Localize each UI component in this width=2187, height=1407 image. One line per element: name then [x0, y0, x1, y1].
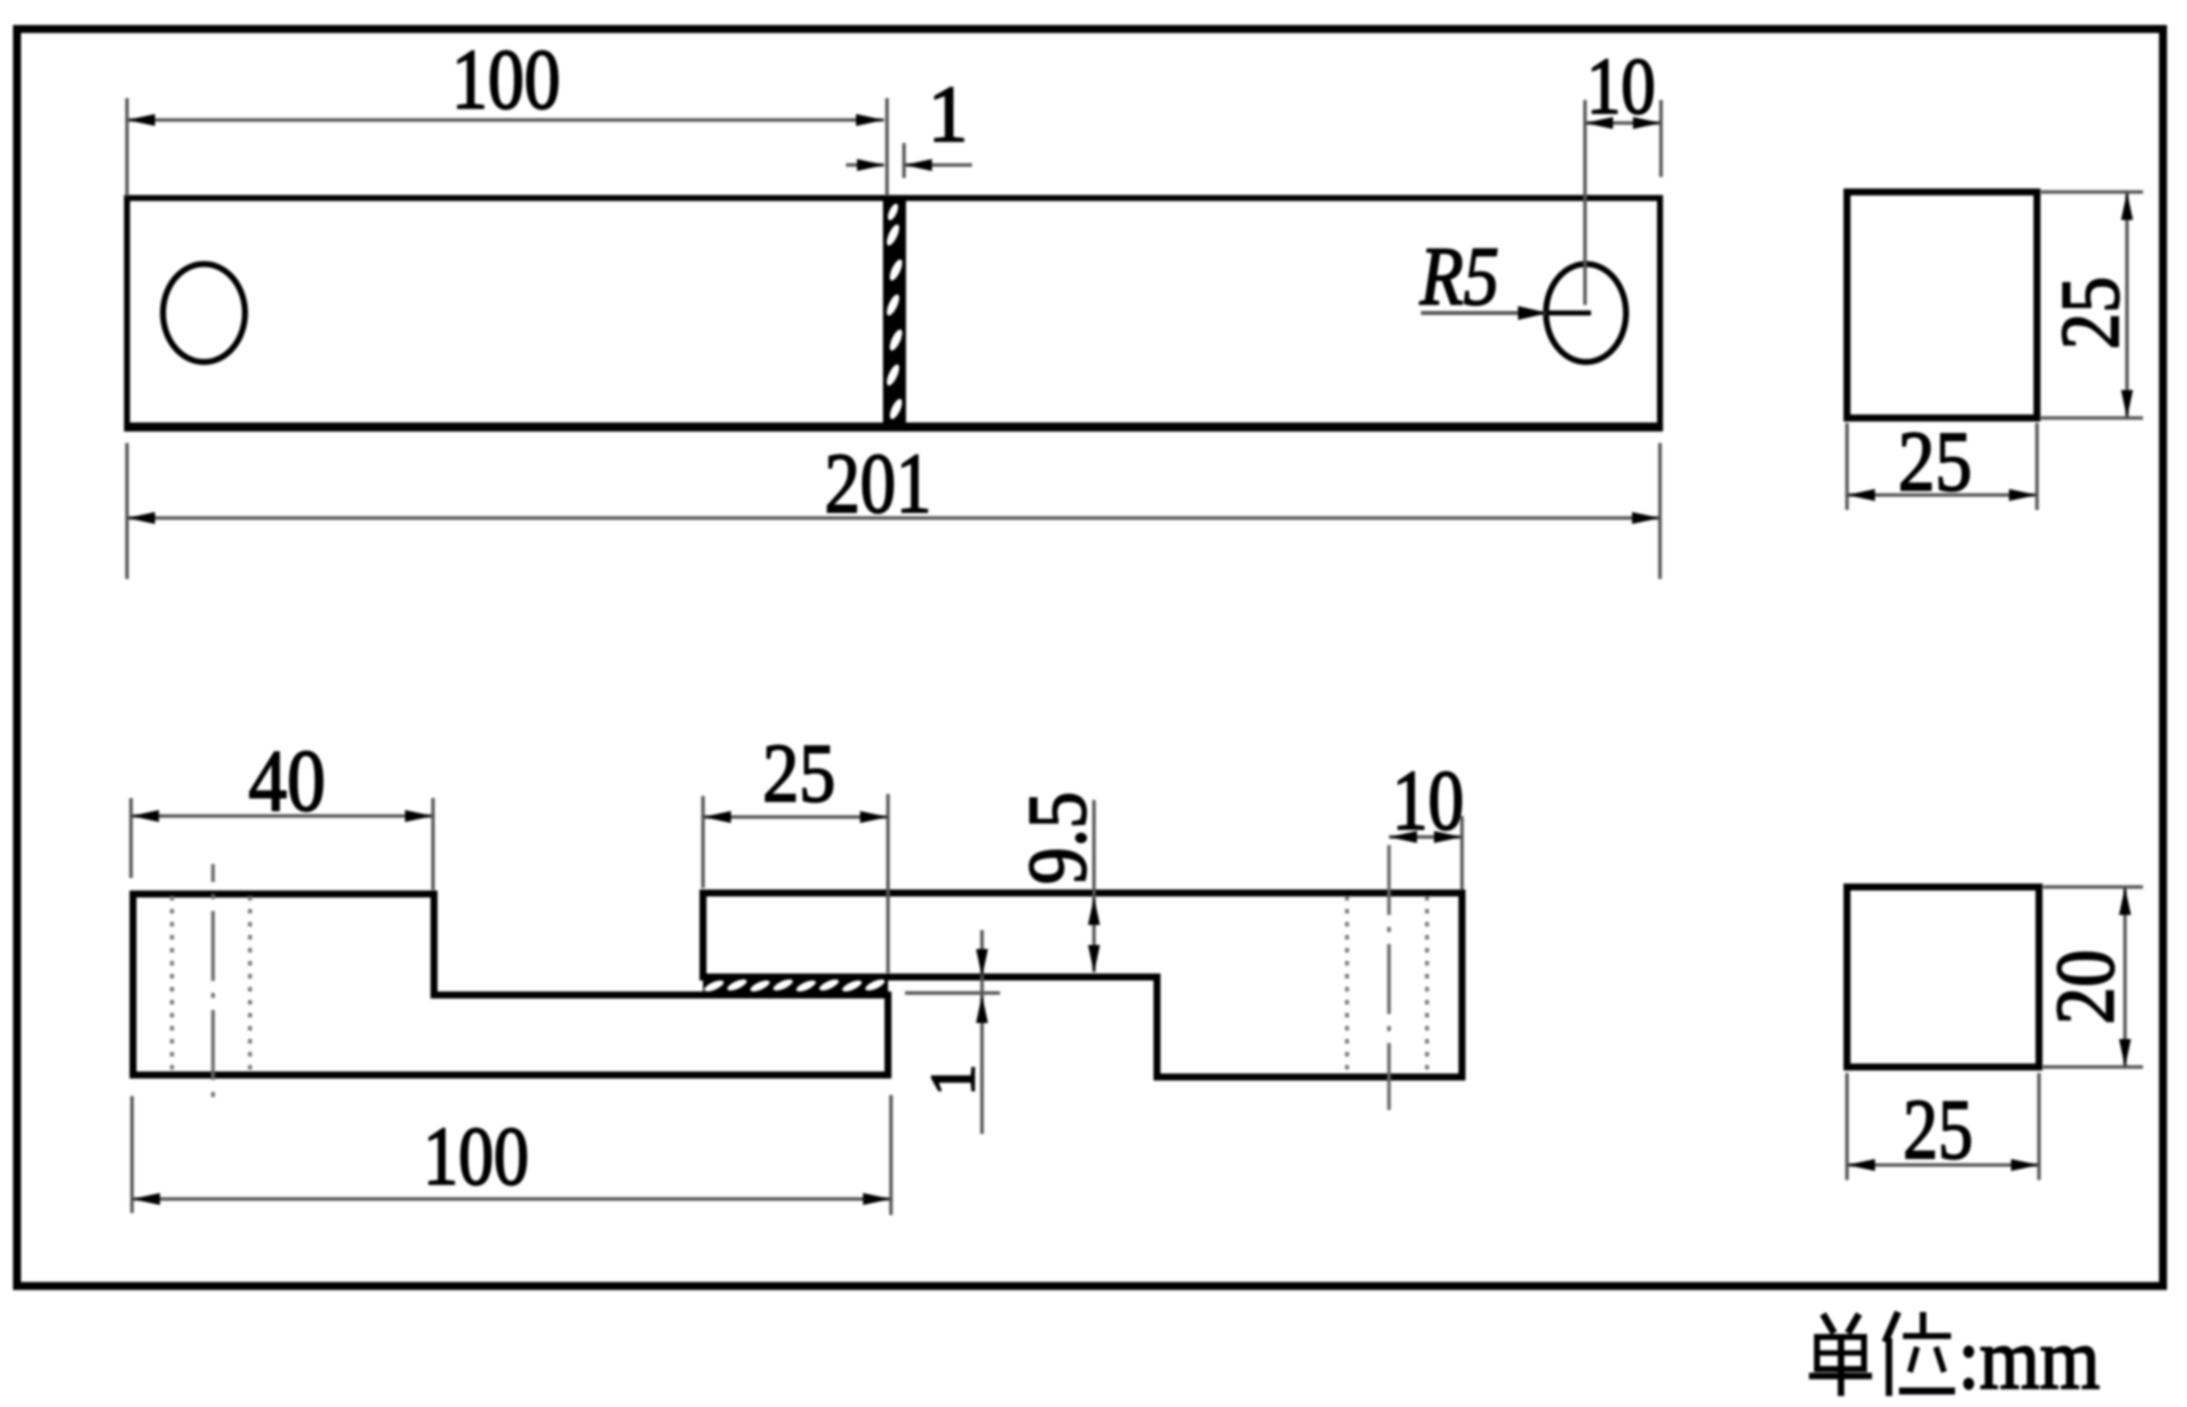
dimension 100 (top)	[127, 31, 887, 196]
weld seam left edge	[883, 198, 887, 427]
svg-text:25: 25	[1903, 1081, 1973, 1177]
svg-text:201: 201	[825, 435, 932, 531]
label R5 with leader	[1419, 230, 1591, 323]
dimension 100 (lower plate length)	[132, 1095, 891, 1215]
dimension 25 (below square 1)	[1847, 413, 2037, 510]
section square bottom right (25 x 20)	[1847, 887, 2039, 1067]
dimension 1 (adhesive thickness)	[905, 930, 1000, 1134]
svg-text:25: 25	[1898, 413, 1972, 509]
hidden hole lines right tab	[1347, 845, 1427, 1110]
svg-text::mm: :mm	[1958, 1311, 2100, 1407]
dimension 25 (below square 2)	[1847, 1073, 2039, 1180]
upper-right plate of lap joint	[703, 893, 1462, 1077]
dimension 10 (right tab)	[1389, 752, 1464, 890]
svg-text:10: 10	[1392, 752, 1464, 848]
svg-text:25: 25	[2044, 277, 2137, 350]
weld seam braid hatch	[884, 199, 905, 426]
dimension 9.5 (upper plate thickness)	[1011, 792, 1104, 974]
adhesive layer braid hatch	[703, 976, 888, 995]
svg-text:1: 1	[917, 1064, 988, 1096]
dimension 1 (seam width)	[846, 71, 972, 178]
svg-text:40: 40	[249, 733, 326, 830]
svg-text:25: 25	[763, 727, 836, 820]
svg-text:20: 20	[2039, 950, 2132, 1025]
dimension 25 (right of square 1, vertical)	[2041, 192, 2143, 418]
units note 单位:mm	[1809, 1311, 2100, 1407]
dimension 201 (bottom of bar)	[127, 435, 1660, 579]
svg-text:10: 10	[1587, 43, 1656, 131]
section square top right (25 x 25)	[1847, 192, 2037, 418]
svg-text:9.5: 9.5	[1011, 792, 1104, 885]
dimension 10 (hole offset, top right)	[1585, 43, 1661, 305]
dimension 25 (overlap length)	[703, 727, 888, 973]
lower-left plate of lap joint	[133, 894, 888, 1075]
top bar plate (butt joint specimen, 201 x 25)	[124, 198, 1663, 427]
hole right	[1546, 264, 1626, 362]
svg-text:1: 1	[928, 71, 968, 159]
单	[1823, 1314, 1834, 1333]
dimension 20 (right of square 2, vertical)	[2039, 887, 2143, 1067]
svg-text:100: 100	[423, 1110, 529, 1203]
svg-text:100: 100	[452, 31, 561, 127]
位	[1885, 1312, 1898, 1342]
hole left	[163, 264, 245, 362]
dimension 40 (left tab)	[131, 733, 433, 890]
hidden hole lines left tab	[172, 864, 250, 1107]
weld seam right edge	[902, 198, 906, 427]
svg-text:R5: R5	[1419, 230, 1499, 323]
